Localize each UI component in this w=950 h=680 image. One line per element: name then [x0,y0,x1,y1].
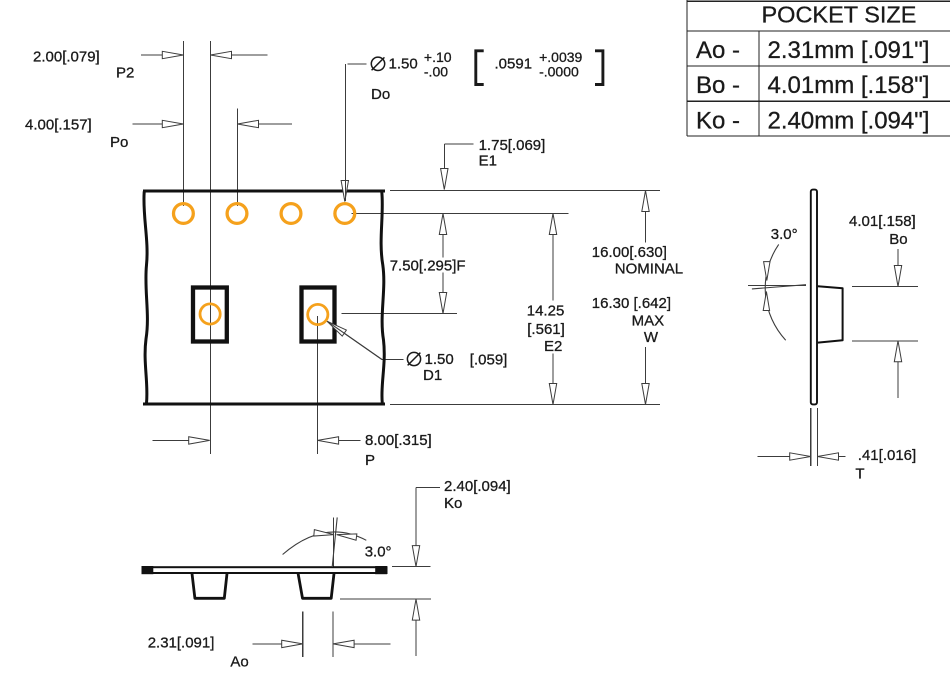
svg-text:2.00[.079]: 2.00[.079] [33,49,100,66]
svg-text:2.31mm [.091"]: 2.31mm [.091"] [768,37,930,64]
svg-text:2.31[.091]: 2.31[.091] [148,635,215,652]
svg-text:E1: E1 [479,152,497,169]
svg-text:Ao -: Ao - [696,37,740,64]
svg-text:Ko -: Ko - [696,107,740,134]
svg-text:.0591: .0591 [495,55,533,72]
svg-text:Po: Po [110,134,128,151]
svg-text:Do: Do [371,86,390,103]
svg-text:14.25: 14.25 [527,302,565,319]
svg-text:MAX: MAX [632,313,665,330]
svg-text:T: T [855,466,864,483]
svg-text:16.30 [.642]: 16.30 [.642] [592,295,671,312]
svg-text:NOMINAL: NOMINAL [615,261,683,278]
svg-text:2.40mm [.094"]: 2.40mm [.094"] [768,107,930,134]
svg-text:7.50[.295]F: 7.50[.295]F [390,257,466,274]
svg-text:Ko: Ko [444,495,462,512]
svg-text:W: W [644,329,659,346]
svg-text:P: P [365,452,375,469]
svg-text:4.01[.158]: 4.01[.158] [849,213,916,230]
svg-text:4.00[.157]: 4.00[.157] [25,117,92,134]
svg-text:+.10: +.10 [424,49,452,65]
svg-text:2.40[.094]: 2.40[.094] [444,478,511,495]
svg-text:16.00[.630]: 16.00[.630] [592,244,667,261]
svg-text:[.561]: [.561] [527,321,565,338]
svg-text:8.00[.315]: 8.00[.315] [365,432,432,449]
svg-text:Ao: Ao [230,654,248,671]
svg-text:E2: E2 [544,338,562,355]
svg-text:1.50: 1.50 [389,55,418,72]
svg-text:1.50: 1.50 [425,351,454,368]
svg-text:3.0°: 3.0° [365,544,392,561]
svg-text:-.0000: -.0000 [539,64,579,80]
svg-text:+.0039: +.0039 [539,49,582,65]
svg-text:4.01mm [.158"]: 4.01mm [.158"] [768,72,930,99]
svg-text:POCKET SIZE: POCKET SIZE [762,1,917,27]
svg-text:3.0°: 3.0° [771,226,798,243]
svg-text:P2: P2 [116,65,134,82]
svg-text:Bo: Bo [889,231,907,248]
svg-text:.41[.016]: .41[.016] [858,447,916,464]
svg-text:Bo -: Bo - [696,72,740,99]
svg-text:-.00: -.00 [424,64,448,80]
svg-text:[.059]: [.059] [470,352,508,369]
svg-text:D1: D1 [423,367,442,384]
